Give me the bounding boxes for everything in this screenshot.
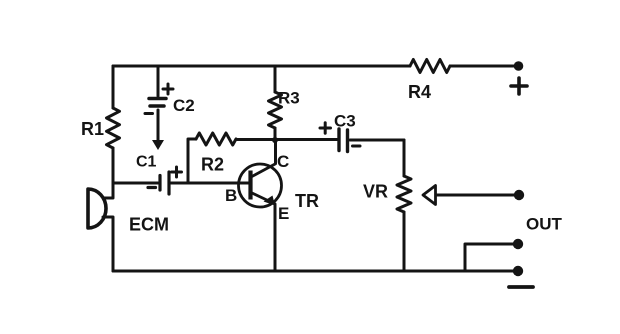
svg-text:R3: R3 <box>278 89 300 108</box>
wire C3 right to corner <box>350 139 404 142</box>
wire VR wiper to output <box>436 194 514 197</box>
wire left rail upper <box>112 66 115 108</box>
wire R2 left lead vertical <box>188 139 196 183</box>
svg-text:C2: C2 <box>173 96 195 115</box>
wire ECM bottom tab down to ground rail <box>103 217 113 271</box>
transistor emitter arrowhead <box>264 196 276 206</box>
microphone ECM <box>88 189 113 228</box>
wire OUT positive stub <box>465 244 513 271</box>
capacitor C3 <box>339 129 348 152</box>
ground minus bar <box>509 285 533 289</box>
junction node B <box>272 137 278 143</box>
wire ground rail bottom <box>113 270 518 273</box>
svg-text:B: B <box>225 186 237 205</box>
C1 polarity plus <box>172 167 182 177</box>
wire VR bottom lead <box>403 212 406 271</box>
capacitor C2 <box>149 99 166 107</box>
resistor R1 <box>107 108 120 148</box>
resistor R2 <box>196 133 236 145</box>
wire R3 top lead <box>274 66 277 92</box>
svg-text:E: E <box>278 204 289 223</box>
wire collector vertical <box>274 140 277 164</box>
resistor R4 <box>410 60 450 73</box>
supply plus symbol <box>511 78 527 94</box>
wire node A to C1 <box>113 182 158 185</box>
svg-text:OUT: OUT <box>526 215 563 234</box>
transistor TR <box>239 164 282 208</box>
svg-text:R2: R2 <box>201 155 224 175</box>
terminal dot OUT- <box>513 266 523 276</box>
potentiometer wiper arrow <box>423 186 436 205</box>
wire C2 bottom lead <box>157 110 160 141</box>
wire R3 bottom lead <box>274 128 277 140</box>
svg-text:C3: C3 <box>334 112 356 131</box>
svg-text:R1: R1 <box>81 119 104 139</box>
svg-text:TR: TR <box>295 191 319 211</box>
wire emitter vertical <box>274 204 277 271</box>
svg-text:ECM: ECM <box>129 215 169 235</box>
wire corner down to VR <box>403 140 406 176</box>
resistor R3 <box>269 92 282 128</box>
C2 polarity plus <box>163 84 173 94</box>
capacitor C1 <box>160 172 169 194</box>
wire top rail left segment <box>113 65 410 68</box>
C3 polarity plus <box>320 123 331 133</box>
C2 polarity minus <box>145 112 153 115</box>
wire R2 to node B junction to C3 <box>236 138 337 141</box>
terminal dot OUT+ <box>513 239 523 249</box>
svg-text:C1: C1 <box>136 154 157 171</box>
wire C1 to base <box>171 182 249 185</box>
terminal dot V+ <box>514 61 524 71</box>
C1 polarity minus <box>148 186 156 189</box>
svg-text:VR: VR <box>363 182 388 202</box>
wire C2 top lead <box>157 66 160 96</box>
svg-text:R4: R4 <box>408 82 431 102</box>
svg-text:C: C <box>277 152 289 171</box>
terminal dot wiper out <box>514 190 524 200</box>
C3 polarity minus <box>353 145 361 148</box>
wire top rail right segment <box>450 65 514 68</box>
wire left rail lower to ECM top tab <box>103 148 113 198</box>
C2 arrow down <box>152 140 164 150</box>
potentiometer VR <box>397 176 411 212</box>
